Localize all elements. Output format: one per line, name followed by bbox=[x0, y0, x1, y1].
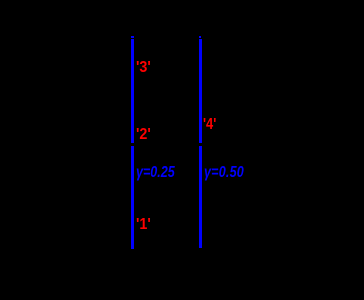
left branch top marker bbox=[131, 36, 134, 38]
label '1' bbox=[136, 216, 151, 232]
label '2' bbox=[136, 126, 151, 142]
right branch lower segment bbox=[199, 146, 202, 248]
label '3' bbox=[136, 59, 151, 75]
left branch lower segment (section 1) bbox=[131, 146, 134, 249]
right branch upper segment (section 4) bbox=[199, 39, 202, 142]
label gamma=0.50 bbox=[204, 165, 244, 181]
label gamma=0.25 bbox=[136, 165, 175, 181]
left branch upper segment (sections 2-3) bbox=[131, 39, 134, 142]
right branch top marker bbox=[199, 36, 202, 38]
label '4' bbox=[203, 116, 216, 132]
